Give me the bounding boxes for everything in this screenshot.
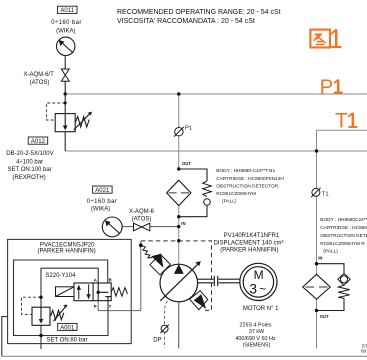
label DP	[153, 338, 161, 344]
test point DP	[160, 325, 168, 333]
svg-text:S220-Y104: S220-Y104	[45, 273, 76, 279]
pressure gauge A021	[102, 217, 122, 237]
label OUT return filter	[320, 314, 329, 319]
valve port labels A B P T	[94, 277, 112, 309]
svg-text:(REXROTH): (REXROTH)	[12, 175, 45, 181]
svg-text:BODY : HH8650C24**: BODY : HH8650C24**	[320, 217, 367, 223]
svg-text:MOTOR N° 1: MOTOR N° 1	[243, 306, 279, 312]
svg-text:CARTRIDGE : HC9600: CARTRIDGE : HC9600	[320, 225, 367, 231]
svg-text:OBSTRUCTION DETE: OBSTRUCTION DETE	[320, 233, 367, 239]
svg-text:P: P	[320, 77, 333, 99]
svg-text:3: 3	[249, 280, 257, 296]
label A001	[47, 323, 88, 343]
motor M 3~ label	[249, 268, 266, 297]
valve right position paths	[98, 283, 111, 301]
svg-text:~: ~	[259, 282, 266, 296]
svg-text:4÷100 bar: 4÷100 bar	[16, 159, 43, 165]
svg-text:(WIKA): (WIKA)	[56, 28, 75, 34]
test point P1	[174, 127, 184, 137]
wire A011 gauge stem	[64, 55, 66, 113]
PVAC block title	[37, 242, 95, 254]
svg-text:SET ON:80 bar: SET ON:80 bar	[47, 337, 88, 343]
svg-text:(ATOS): (ATOS)	[30, 80, 50, 86]
solenoid coil	[56, 287, 75, 297]
pressure filter bypass spring and indicator	[203, 181, 212, 205]
svg-text:(PALL): (PALL)	[222, 199, 237, 205]
svg-text:T: T	[335, 110, 348, 133]
pressure filter (PALL)	[167, 180, 191, 205]
wire PVAC B-port loop	[14, 260, 109, 336]
svg-text:DISPLACEMENT 140 cm³: DISPLACEMENT 140 cm³	[214, 240, 284, 246]
svg-text:A012: A012	[31, 139, 46, 145]
wire PVAC A-port line	[41, 268, 98, 307]
svg-text:OUT: OUT	[320, 314, 329, 319]
svg-text:0÷160 bar: 0÷160 bar	[51, 20, 82, 26]
pump stroking piston upper-left	[150, 254, 171, 275]
svg-text:PV140R1K4T1NFR1: PV140R1K4T1NFR1	[224, 233, 280, 239]
label T1 test point	[322, 191, 329, 197]
pump enclosure dashed box	[141, 241, 212, 311]
svg-text:DB-20-2-5X/100V: DB-20-2-5X/100V	[6, 151, 53, 157]
wire tank return line	[65, 150, 367, 152]
label X-AQM-6/T (ATOS)	[24, 72, 55, 86]
electric motor M1	[240, 263, 277, 300]
wire right filter bypass loop	[317, 264, 345, 311]
svg-text:T1: T1	[322, 191, 329, 197]
wire return filter drop	[316, 151, 318, 349]
svg-text:OUT: OUT	[182, 161, 191, 166]
valve return spring	[111, 288, 127, 297]
label T1 header (orange)	[335, 110, 357, 133]
svg-text:DP: DP	[153, 338, 161, 344]
label P1 header (orange)	[320, 77, 343, 99]
svg-text:A: A	[94, 277, 97, 282]
pump stroking piston lower-right	[190, 291, 208, 310]
svg-text:RC861CZ090HYM: RC861CZ090HYM	[216, 191, 256, 197]
label A011	[51, 6, 82, 34]
svg-text:X-AQM-6/T: X-AQM-6/T	[24, 72, 55, 78]
pilot dashed line A001	[22, 297, 42, 314]
label P1 test point	[185, 126, 192, 132]
wire P1 main pressure line	[65, 93, 367, 95]
valve left position arrows	[77, 285, 91, 300]
return filter bypass check valve	[338, 273, 350, 298]
wire A001 relief outlet	[40, 325, 42, 349]
variable displacement pump	[160, 261, 201, 302]
svg-text:(PARKER HANNIFIN): (PARKER HANNIFIN)	[37, 249, 95, 255]
svg-text:X-AQM-6: X-AQM-6	[129, 209, 155, 215]
solenoid valve S220-Y104 body	[74, 283, 111, 301]
wire A012 relief outlet	[64, 132, 66, 151]
pressure filter text block	[216, 168, 284, 205]
label IN pressure filter	[181, 221, 185, 226]
PVAC block outer box	[8, 239, 132, 343]
svg-text:A011: A011	[60, 8, 74, 14]
svg-text:(SIEMENS): (SIEMENS)	[243, 343, 271, 349]
pressure gauge A011	[56, 37, 74, 55]
svg-text:A001: A001	[60, 325, 75, 331]
wire left filter bypass loop	[179, 169, 207, 217]
test point T1	[311, 188, 320, 197]
figure label 图1 (orange)	[310, 29, 341, 47]
case drain dashed line DP	[165, 301, 168, 348]
bottom frame line	[2, 355, 367, 357]
svg-text:IN: IN	[181, 221, 185, 226]
label IN return filter	[318, 256, 322, 261]
wire T1 header line	[317, 130, 367, 151]
svg-text:A021: A021	[95, 188, 110, 194]
svg-text:0÷160 bar: 0÷160 bar	[87, 199, 118, 205]
label OUT pressure filter	[182, 161, 191, 166]
svg-text:225S 4 Poles: 225S 4 Poles	[239, 322, 271, 328]
svg-text:B: B	[109, 277, 112, 282]
wire pump discharge riser	[178, 94, 180, 265]
label A012 block	[6, 137, 53, 181]
shutoff valve X-AQM-6/T	[61, 69, 69, 81]
svg-text:PVAC1ECMNSJP20: PVAC1ECMNSJP20	[40, 242, 95, 248]
pump-motor shaft and coupling	[197, 276, 240, 286]
svg-text:37 kW: 37 kW	[249, 329, 265, 335]
svg-text:SET ON:100 bar: SET ON:100 bar	[7, 167, 51, 173]
shutoff valve X-AQM-6	[134, 223, 150, 231]
svg-text:P: P	[94, 304, 97, 309]
pump text block	[214, 233, 284, 253]
wire pump control line	[98, 241, 141, 311]
svg-text:OBSTRUCTION DETECTOR:: OBSTRUCTION DETECTOR:	[216, 184, 279, 190]
relief valve A001	[32, 305, 67, 326]
svg-text:RECOMMENDED OPERATING RANGE: 2: RECOMMENDED OPERATING RANGE: 20 - 54 cSt	[117, 9, 281, 16]
wire A021 gauge tap	[122, 226, 179, 228]
return filter text block	[320, 217, 367, 255]
svg-text:IN: IN	[318, 256, 322, 261]
note recommended operating range	[117, 9, 281, 25]
label A021 block	[87, 186, 118, 213]
svg-text:(PARKER HANNIFIN): (PARKER HANNIFIN)	[220, 247, 278, 253]
svg-text:(WIKA): (WIKA)	[91, 207, 110, 213]
wire external drain to frame	[2, 317, 8, 357]
svg-text:VISCOSITA' RACCOMANDATA : 20 -: VISCOSITA' RACCOMANDATA : 20 - 54 cSt	[117, 18, 255, 25]
pump control spring	[141, 245, 153, 258]
svg-text:(ATOS): (ATOS)	[132, 217, 152, 223]
label X-AQM-6 (ATOS)	[129, 209, 155, 223]
svg-text:RC861CZ090HYM R: RC861CZ090HYM R	[320, 241, 365, 247]
svg-text:T: T	[109, 304, 112, 309]
motor text block	[235, 306, 279, 349]
relief valve A012	[55, 112, 92, 132]
svg-text:400/690 V 50 Hz: 400/690 V 50 Hz	[235, 336, 275, 342]
wire pump suction line	[178, 301, 180, 348]
svg-text:(PALL): (PALL)	[323, 249, 338, 255]
return filter (PALL)	[303, 274, 330, 299]
label S220-Y104	[45, 273, 76, 279]
label MOTOR corner text ST/60 clipped	[361, 343, 367, 354]
svg-text:P1: P1	[185, 126, 192, 132]
svg-text:BODY : HH9680-C24**T-B1: BODY : HH9680-C24**T-B1	[216, 168, 275, 174]
svg-text:60: 60	[361, 348, 367, 354]
pilot dashed line A012	[46, 103, 65, 120]
svg-text:CARTRIDGE : HC9600FKN13H: CARTRIDGE : HC9600FKN13H	[216, 176, 284, 182]
